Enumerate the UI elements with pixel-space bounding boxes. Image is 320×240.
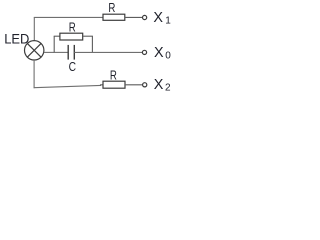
- svg-text:R: R: [110, 67, 117, 82]
- svg-text:0: 0: [165, 51, 171, 62]
- svg-text:2: 2: [165, 82, 171, 93]
- wire top vertical from lamp top to top rail: [33, 17, 35, 40]
- resistor R (bottom, X2 branch): [103, 81, 125, 88]
- terminal node X0 (open circle): [142, 50, 146, 54]
- wire bottom rail horizontal: [34, 85, 101, 87]
- wire from capacitor right plate through node B to terminal X0: [74, 51, 142, 53]
- svg-text:LED: LED: [4, 31, 29, 46]
- wire bottom branch into capacitor left plate: [54, 51, 68, 53]
- svg-text:1: 1: [165, 15, 171, 26]
- wire into bottom resistor: [100, 84, 103, 86]
- resistor R (top, X1 branch): [103, 14, 125, 20]
- wire from bottom resistor to terminal X2: [125, 84, 143, 86]
- svg-text:X: X: [154, 45, 164, 61]
- node B right vertical of RC parallel block: [91, 36, 93, 53]
- terminal node X2 (open circle): [143, 83, 147, 87]
- svg-text:R: R: [69, 20, 76, 35]
- capacitor C plates: [68, 45, 74, 60]
- svg-text:R: R: [108, 0, 115, 15]
- wire from lamp right to RC block (node A): [44, 51, 55, 53]
- svg-text:X: X: [153, 10, 163, 26]
- wire top branch left to resistor R (RC block): [54, 35, 60, 37]
- terminal node X1 (open circle): [143, 15, 147, 19]
- wire top rail horizontal to resistor R (X1 branch): [34, 16, 103, 18]
- wire top branch right from resistor to node B: [83, 35, 93, 37]
- wire bottom vertical from lamp bottom: [33, 60, 35, 88]
- svg-text:X: X: [154, 77, 164, 93]
- resistor R (middle, RC block): [60, 33, 83, 40]
- svg-text:C: C: [69, 59, 76, 74]
- LED lamp symbol (circle with X): [25, 41, 44, 60]
- node A left vertical of RC parallel block: [53, 36, 55, 53]
- wire jog up to bottom resistor level: [100, 85, 102, 86]
- wire from top resistor to terminal X1: [125, 16, 143, 18]
